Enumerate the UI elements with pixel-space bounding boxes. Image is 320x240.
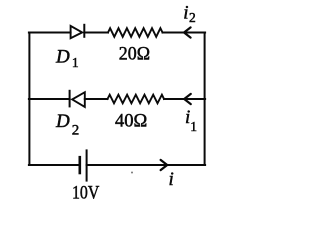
wire: top branch, left corner to diode D1 anode — [29, 32, 71, 34]
diode D2 (hollow triangle pointing left) — [72, 92, 85, 107]
wire: right vertical side of loop — [204, 33, 206, 166]
diode D1 (hollow triangle pointing right) — [71, 26, 83, 38]
current arrow i1 (pointing left on middle wire) — [184, 94, 191, 104]
svg-text:i: i — [169, 169, 174, 190]
wire: D1 cathode to resistor 20ohm — [84, 32, 108, 34]
svg-text:1: 1 — [190, 119, 197, 134]
resistor R1 20ohm zigzag — [108, 28, 163, 37]
current arrow i2 (pointing left on top wire) — [184, 27, 191, 37]
diode D1 cathode bar — [83, 25, 85, 37]
battery B1 negative plate (short bar) — [79, 157, 82, 173]
wire: middle branch, left junction to diode D2 cathode — [29, 98, 70, 100]
svg-text:10V: 10V — [72, 182, 100, 203]
wire: left vertical side of loop — [28, 33, 30, 166]
svg-text:i: i — [183, 3, 188, 24]
battery B1 positive plate (long bar) — [86, 150, 88, 180]
wire: D2 anode to resistor 40ohm — [85, 98, 108, 100]
svg-text:2: 2 — [72, 123, 80, 139]
svg-text:2: 2 — [189, 10, 196, 25]
resistor R2 40ohm zigzag — [108, 95, 165, 104]
current arrow i (pointing right on bottom wire) — [161, 160, 168, 170]
svg-text:D: D — [55, 111, 70, 132]
svg-text:40Ω: 40Ω — [115, 110, 147, 131]
svg-text:20Ω: 20Ω — [119, 43, 150, 64]
svg-text:D: D — [55, 47, 70, 68]
stray scan speck — [131, 172, 133, 174]
wire: bottom branch, left corner to battery negative — [29, 164, 80, 166]
diode D2 cathode bar — [69, 91, 71, 107]
wire: battery positive to right corner — [87, 164, 206, 166]
wire: resistor 40ohm to right vertical — [164, 98, 205, 100]
wire: resistor 20ohm to right corner — [163, 32, 206, 34]
svg-text:1: 1 — [72, 55, 79, 70]
